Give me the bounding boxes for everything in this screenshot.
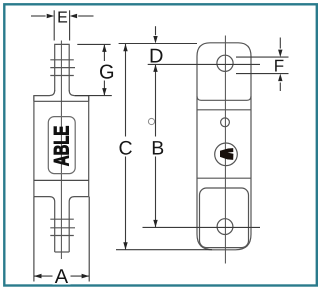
E left arrowhead (47, 14, 55, 18)
bottom extension line (plate bottom) (116, 249, 212, 251)
D upper arrowhead (153, 36, 157, 44)
B bottom arrowhead (153, 220, 157, 228)
B top arrowhead (153, 64, 157, 72)
bottom hole (217, 219, 233, 235)
F lower extension line (236, 73, 289, 75)
A left arrowhead (34, 274, 42, 279)
svg-text:A: A (55, 266, 69, 288)
rod bottom edge (55, 251, 69, 253)
D upper arrow tail (155, 26, 157, 35)
body top edge (34, 100, 89, 102)
svg-text:D: D (149, 46, 163, 68)
centerline right view (224, 36, 226, 264)
G bottom extension line (75, 95, 112, 97)
logo mark inside circle (220, 148, 233, 160)
B dimension line lower (155, 157, 157, 228)
bottom hole centre line (143, 226, 261, 228)
svg-text:C: C (118, 137, 132, 159)
svg-text:F: F (274, 56, 284, 75)
E left arrow line (31, 15, 46, 17)
rod top threads (50, 59, 74, 61)
F lower arrow tail (279, 83, 281, 92)
rod bottom threads (50, 218, 74, 220)
F upper arrowhead (278, 50, 282, 58)
svg-text:ABLE: ABLE (51, 126, 74, 167)
G bottom arrowhead (102, 88, 106, 96)
small diameter circle mark (148, 118, 154, 124)
A right arrowhead (82, 274, 90, 279)
G top extension line (77, 43, 110, 45)
F upper extension line (236, 56, 289, 58)
G top arrowhead (102, 44, 106, 52)
logo circle (215, 143, 238, 166)
svg-text:E: E (57, 9, 68, 26)
top flare into body ledge (34, 90, 89, 101)
C dimension line lower (125, 157, 127, 250)
plate outline (stadium) (197, 43, 251, 250)
bottom ledge and flare into rod (34, 197, 89, 252)
top tab bottom edge (197, 96, 251, 100)
svg-text:G: G (99, 61, 115, 83)
top hole centre line (148, 63, 260, 65)
body top edge line (197, 109, 251, 111)
body sides (33, 96, 35, 197)
C dimension line upper (125, 44, 127, 137)
E left extension line (53, 10, 55, 40)
F lower arrowhead (278, 74, 282, 82)
A right extension line (88, 197, 90, 282)
rod top outline (55, 44, 69, 91)
E right arrowhead (70, 14, 78, 18)
C bottom arrowhead (123, 242, 127, 250)
A dimension line (34, 275, 89, 277)
bottom tab inner outline (200, 188, 249, 248)
ABLE label text (rotated) (51, 126, 74, 167)
body bottom edge line (197, 177, 251, 179)
A left extension line (33, 197, 35, 282)
G dimension line lower (103, 81, 105, 96)
top extension line (plate top) (119, 43, 197, 45)
small circle (221, 118, 230, 127)
F upper arrow tail (279, 38, 281, 49)
B dimension line upper (shared with D lower arrow) (155, 64, 157, 136)
E right arrow line (78, 15, 93, 17)
top hole (217, 55, 233, 71)
label A (white backed) (53, 268, 71, 285)
centerline left view (60, 41, 62, 260)
body bottom edge (34, 179, 89, 181)
label plate rounded rect (48, 117, 75, 174)
E right extension line (69, 10, 71, 40)
G dimension line upper (103, 44, 105, 61)
svg-text:B: B (151, 137, 164, 159)
C top arrowhead (123, 44, 127, 52)
